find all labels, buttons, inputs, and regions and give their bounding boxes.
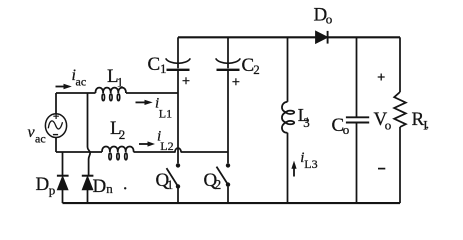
- svg-text:ac: ac: [76, 75, 87, 89]
- wire L1 row left: [56, 92, 96, 94]
- wire bottom rail: [63, 202, 401, 204]
- svg-text:1: 1: [117, 75, 124, 90]
- arrow i_L2: [139, 141, 155, 146]
- svg-text:L1: L1: [159, 107, 172, 121]
- svg-text:o: o: [385, 118, 392, 133]
- svg-text:ac: ac: [35, 132, 46, 146]
- capacitor C2: [216, 37, 241, 163]
- output minus: [378, 168, 385, 170]
- resistor RL: [394, 37, 406, 203]
- wire L1 row right: [126, 92, 178, 94]
- svg-text:o: o: [343, 122, 350, 137]
- svg-text:n: n: [106, 181, 113, 196]
- source v_ac: [45, 93, 66, 152]
- diode Dp: [57, 152, 69, 203]
- diode Do: [316, 31, 328, 44]
- capacitor Co: [346, 37, 369, 203]
- inductor L1: [95, 88, 125, 101]
- arrow i_L1: [136, 100, 153, 105]
- stray dot: [124, 187, 126, 189]
- svg-text:D: D: [93, 176, 107, 197]
- svg-text:D: D: [36, 174, 50, 195]
- svg-text:1: 1: [160, 61, 167, 76]
- svg-text:2: 2: [253, 62, 260, 77]
- stray dot right: [426, 127, 428, 129]
- svg-text:2: 2: [214, 178, 221, 193]
- inductor L2: [102, 146, 134, 159]
- wire L2 row right: [181, 151, 228, 153]
- output plus: [378, 74, 385, 81]
- inductor L3: [282, 37, 294, 203]
- switch Q1: [167, 163, 181, 203]
- wire L2 row mid: [134, 151, 176, 153]
- svg-text:L3: L3: [304, 157, 317, 171]
- svg-text:C: C: [148, 54, 161, 75]
- capacitor C1: [166, 37, 191, 163]
- svg-text:o: o: [326, 12, 333, 27]
- wire top rail: [178, 36, 400, 38]
- wire Dn branch with crossover jog: [88, 93, 91, 176]
- svg-text:1: 1: [167, 177, 174, 192]
- svg-text:2: 2: [119, 127, 126, 142]
- arrow i_L3: [291, 161, 296, 177]
- svg-text:L2: L2: [160, 139, 173, 153]
- diode Dn: [82, 176, 94, 203]
- svg-text:p: p: [49, 183, 56, 198]
- svg-text:3: 3: [303, 115, 310, 130]
- arrow i_ac: [56, 84, 72, 89]
- switch Q2: [217, 163, 231, 203]
- svg-text:I: I: [423, 118, 427, 133]
- wire hop over Q1 branch: [175, 148, 181, 152]
- wire L2 row left: [56, 151, 102, 153]
